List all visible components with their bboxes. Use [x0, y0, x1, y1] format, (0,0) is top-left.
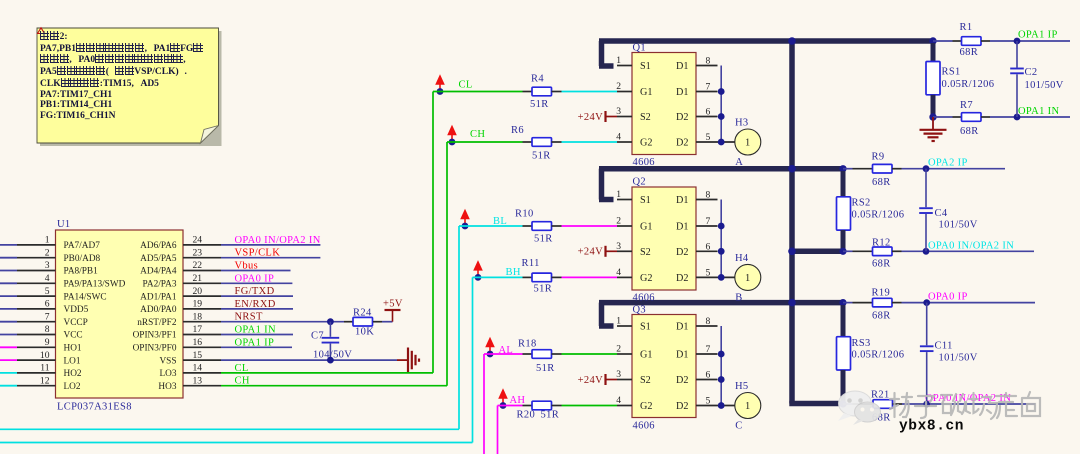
wire Q1 drain bus vertical	[720, 66, 722, 143]
wire net BH bottom horizontal	[0, 442, 473, 444]
wire net AL to R18	[484, 353, 523, 355]
wire Q2 drain bus vertical	[720, 200, 722, 278]
capacitor C7 104/50V	[311, 322, 352, 361]
U1 pin 2 PB0/AD8	[0, 247, 101, 264]
resistor R21 68R	[843, 390, 902, 424]
thick bus leg to Q3 pin1	[599, 303, 605, 326]
svg-text:ybx8.cn: ybx8.cn	[899, 419, 964, 435]
junction bus row C	[788, 299, 796, 307]
resistor R20 51R	[517, 401, 562, 420]
wire net CL vertical	[432, 92, 434, 373]
resistor R7 68R	[933, 100, 990, 137]
Q1 pin 8 stub	[696, 65, 718, 67]
U1 pin 10 LO1	[0, 350, 81, 367]
junction Q3 drain	[718, 402, 725, 409]
junction bus/R12	[788, 248, 796, 256]
junction RS2 top	[839, 165, 846, 172]
thick bus row R12	[789, 249, 843, 255]
Q3 pin 4 stub	[617, 405, 632, 407]
connector H5	[735, 381, 761, 432]
capacitor C2 101/50V	[1010, 41, 1064, 117]
Q2 pin 2 stub	[617, 225, 632, 227]
watermark wechat icon	[838, 391, 881, 425]
wire net AL vertical	[483, 354, 485, 454]
Q1 pin 7 stub	[696, 91, 718, 93]
wire R4 to Q1	[562, 91, 618, 93]
U1 pin 19 AD0/PA0	[140, 299, 221, 316]
wire net OPA0 IN/OPA2 IN (bottom)	[902, 393, 1035, 404]
power +5V	[383, 299, 403, 322]
wire net AH to R20	[498, 405, 523, 407]
Q2 pin 7 stub	[696, 225, 718, 227]
U1 pin 7 VCCP	[0, 311, 88, 328]
resistor R18 51R	[518, 339, 562, 375]
junction OPA1 IP / C2	[1014, 38, 1021, 45]
wire net OPA1 IP	[221, 337, 292, 348]
thick bus main vertical	[789, 38, 795, 403]
thick bus leg to Q1 pin1	[599, 41, 605, 66]
wire net OPA0 IN/OPA2 IN	[221, 235, 321, 246]
resistor R9 68R	[843, 152, 902, 189]
Q2 pin 1 stub	[617, 199, 632, 201]
wire R24 to +5V	[382, 321, 393, 323]
wire net OPA1 IN	[990, 106, 1070, 117]
transistor Q1 (4606 dual MOSFET)	[616, 43, 710, 169]
wire net BL bottom horizontal	[0, 428, 459, 430]
junction Q1 drain	[718, 139, 725, 146]
U1 pin 11 HO2	[0, 363, 82, 380]
junction NRST/C7	[327, 318, 334, 325]
node AL (arrow probe + junction)	[485, 337, 495, 358]
U1 pin 6 VDD5	[0, 299, 89, 316]
wire R6 to Q1	[562, 141, 618, 143]
U1 pin 22 AD4/PA4	[140, 260, 221, 277]
U1 pin 9 HO1	[0, 337, 82, 354]
resistor R10 51R	[515, 209, 562, 245]
junction OPA1 IN / C2	[1014, 114, 1021, 121]
wire net BL to R10	[459, 225, 523, 227]
wire net VSP/CLK	[221, 248, 320, 259]
junction bus row B	[788, 165, 796, 173]
resistor R11 51R	[522, 258, 562, 295]
junction Q2 drain	[718, 223, 725, 230]
U1 pin 4 PA9/PA13/SWD	[0, 273, 126, 290]
wire net OPA0 IN/OPA2 IN	[902, 240, 1035, 251]
U1 pin 23 AD5/PA5	[140, 247, 221, 264]
capacitor C4 101/50V	[919, 169, 978, 252]
thick bus rail section B	[599, 166, 843, 172]
wire net OPA1 IN	[221, 325, 293, 336]
Q2 pin 4 stub	[617, 276, 632, 278]
U1 pin 8 VCC	[0, 324, 83, 341]
capacitor C11 101/50V	[920, 303, 978, 404]
U1 pin 17 OPIN3/PF1	[133, 324, 221, 341]
wire net Vbus	[221, 261, 291, 272]
wire Q3 drain bus vertical	[720, 326, 722, 406]
resistor R24	[344, 308, 382, 338]
Q2 pin 8 stub	[696, 199, 718, 201]
U1 pin 20 AD1/PA1	[140, 286, 221, 303]
junction Q3 drain	[718, 351, 725, 358]
thick bus rail section C	[599, 300, 843, 306]
connector H4	[735, 253, 761, 304]
ground (rotated) at U1 pin15	[397, 348, 419, 373]
Q1 pin 5 stub	[696, 141, 735, 143]
Q3 pin 6 stub	[696, 379, 718, 381]
node BH (arrow probe + junction)	[473, 260, 483, 281]
wire R20 to Q3	[562, 405, 618, 407]
junction Q2 drain	[718, 248, 725, 255]
shunt resistor RS1 0.05R/1206	[926, 43, 994, 117]
wire net FG/TXD	[221, 286, 293, 297]
U1 pin 13 HO3	[158, 375, 221, 392]
wire net BL vertical	[458, 226, 460, 429]
junction bus/RS1	[929, 37, 936, 44]
wire net CL to R4	[433, 91, 523, 93]
Q1 pin 1 stub	[617, 65, 632, 67]
resistor R12 68R	[843, 238, 902, 270]
watermark caption (stylized CJK strokes)	[890, 392, 1040, 419]
junction OPA2 IP / C4	[923, 165, 930, 172]
node CH (arrow probe + junction)	[447, 125, 457, 146]
U1 pin 15 VSS	[159, 350, 221, 367]
junction Q2 drain	[718, 274, 725, 281]
wire net EN/RXD	[221, 299, 293, 310]
Q3 pin 2 stub	[617, 353, 632, 355]
transistor Q2 (4606 dual MOSFET)	[616, 177, 710, 304]
wire net CL (from U1 pin14)	[221, 363, 433, 374]
wire net BH vertical	[472, 277, 474, 442]
power +24V at Q2 pin3	[578, 246, 617, 258]
junction bus top	[788, 37, 796, 45]
power +24V at Q3 pin3	[578, 374, 617, 386]
resistor R19 68R	[843, 288, 902, 322]
junction OPA0 IN / C11	[923, 401, 930, 408]
U1 pin 16 OPIN3/PF0	[133, 337, 221, 354]
Q2 pin 6 stub	[696, 250, 718, 252]
wire net OPA2 IP	[902, 158, 1006, 169]
junction R21	[839, 400, 846, 407]
Q1 pin 3 stub	[617, 116, 632, 118]
Q1 pin 4 stub	[617, 141, 632, 143]
shunt resistor RS3 0.05R/1206	[837, 305, 905, 380]
node AH (arrow probe + junction)	[498, 388, 508, 409]
wire R10 to Q2	[562, 225, 618, 227]
shunt resistor RS2 0.05R/1206	[837, 171, 905, 251]
thick +24V bus top rail	[599, 38, 933, 44]
junction VSS/C7	[327, 357, 334, 364]
junction RS2 bottom	[839, 248, 846, 255]
Q2 pin 5 stub	[696, 276, 735, 278]
wire net CH vertical	[446, 142, 448, 386]
transistor Q3 (4606 dual MOSFET)	[616, 305, 710, 432]
wire R18 to Q3	[562, 353, 618, 355]
U1 pin 24 AD6/PA6	[140, 235, 221, 252]
Q1 pin 6 stub	[696, 116, 718, 118]
U1 pin 18 nRST/PF2	[137, 311, 221, 328]
junction OPA0 IP / C11	[923, 299, 930, 306]
resistor R4 51R	[523, 74, 562, 111]
U1 pin 5 PA14/SWC	[0, 286, 107, 303]
U1 pin 3 PA8/PB1	[0, 260, 98, 277]
wire net BH to R11	[473, 276, 523, 278]
IC U1 LCP037A31ES8 body	[56, 219, 184, 413]
U1 pin 21 PA2/PA3	[143, 273, 221, 290]
resistor R6 51R	[511, 125, 562, 162]
junction Q1 drain	[718, 88, 725, 95]
note text	[40, 31, 215, 122]
junction Q1 drain	[718, 113, 725, 120]
junction RS1 bottom	[929, 113, 936, 120]
connector H3	[735, 118, 761, 169]
wire R11 to Q2	[562, 276, 618, 278]
Q3 pin 5 stub	[696, 405, 735, 407]
Q3 pin 1 stub	[617, 325, 632, 327]
power +24V at Q1 pin3	[578, 111, 617, 123]
thick bus leg to Q2 pin1	[599, 169, 605, 200]
wire net VSS	[221, 359, 397, 361]
wire net AH vertical	[497, 406, 499, 454]
U1 pin 12 LO2	[0, 375, 81, 392]
U1 pin 14 LO3	[159, 363, 221, 380]
thick bus RS3 column	[841, 370, 846, 404]
note box corner marker	[38, 28, 45, 34]
node CL (arrow probe + junction)	[435, 74, 445, 95]
resistor R1 68R	[933, 22, 990, 58]
wire net CH to R6	[447, 141, 523, 143]
ground below RS1	[920, 117, 947, 141]
wire net NRST	[221, 312, 344, 323]
Q3 pin 8 stub	[696, 325, 718, 327]
junction RS3 top	[839, 299, 846, 306]
wire net OPA1 IP	[990, 30, 1070, 42]
note box (sticky note)	[37, 28, 222, 146]
Q2 pin 3 stub	[617, 250, 632, 252]
Q3 pin 3 stub	[617, 379, 632, 381]
node BL (arrow probe + junction)	[460, 209, 470, 230]
wire net OPA0 IP	[221, 273, 292, 284]
wire net OPA0 IP	[902, 292, 1036, 303]
Q3 pin 7 stub	[696, 353, 718, 355]
wire net CH (from U1 pin13)	[221, 376, 447, 387]
thick bus bottom horizontal	[789, 401, 843, 407]
junction OPA0 IN / C4	[923, 248, 930, 255]
Q1 pin 2 stub	[617, 91, 632, 93]
U1 pin 1 PA7/AD7	[0, 235, 100, 252]
junction Q3 drain	[718, 376, 725, 383]
